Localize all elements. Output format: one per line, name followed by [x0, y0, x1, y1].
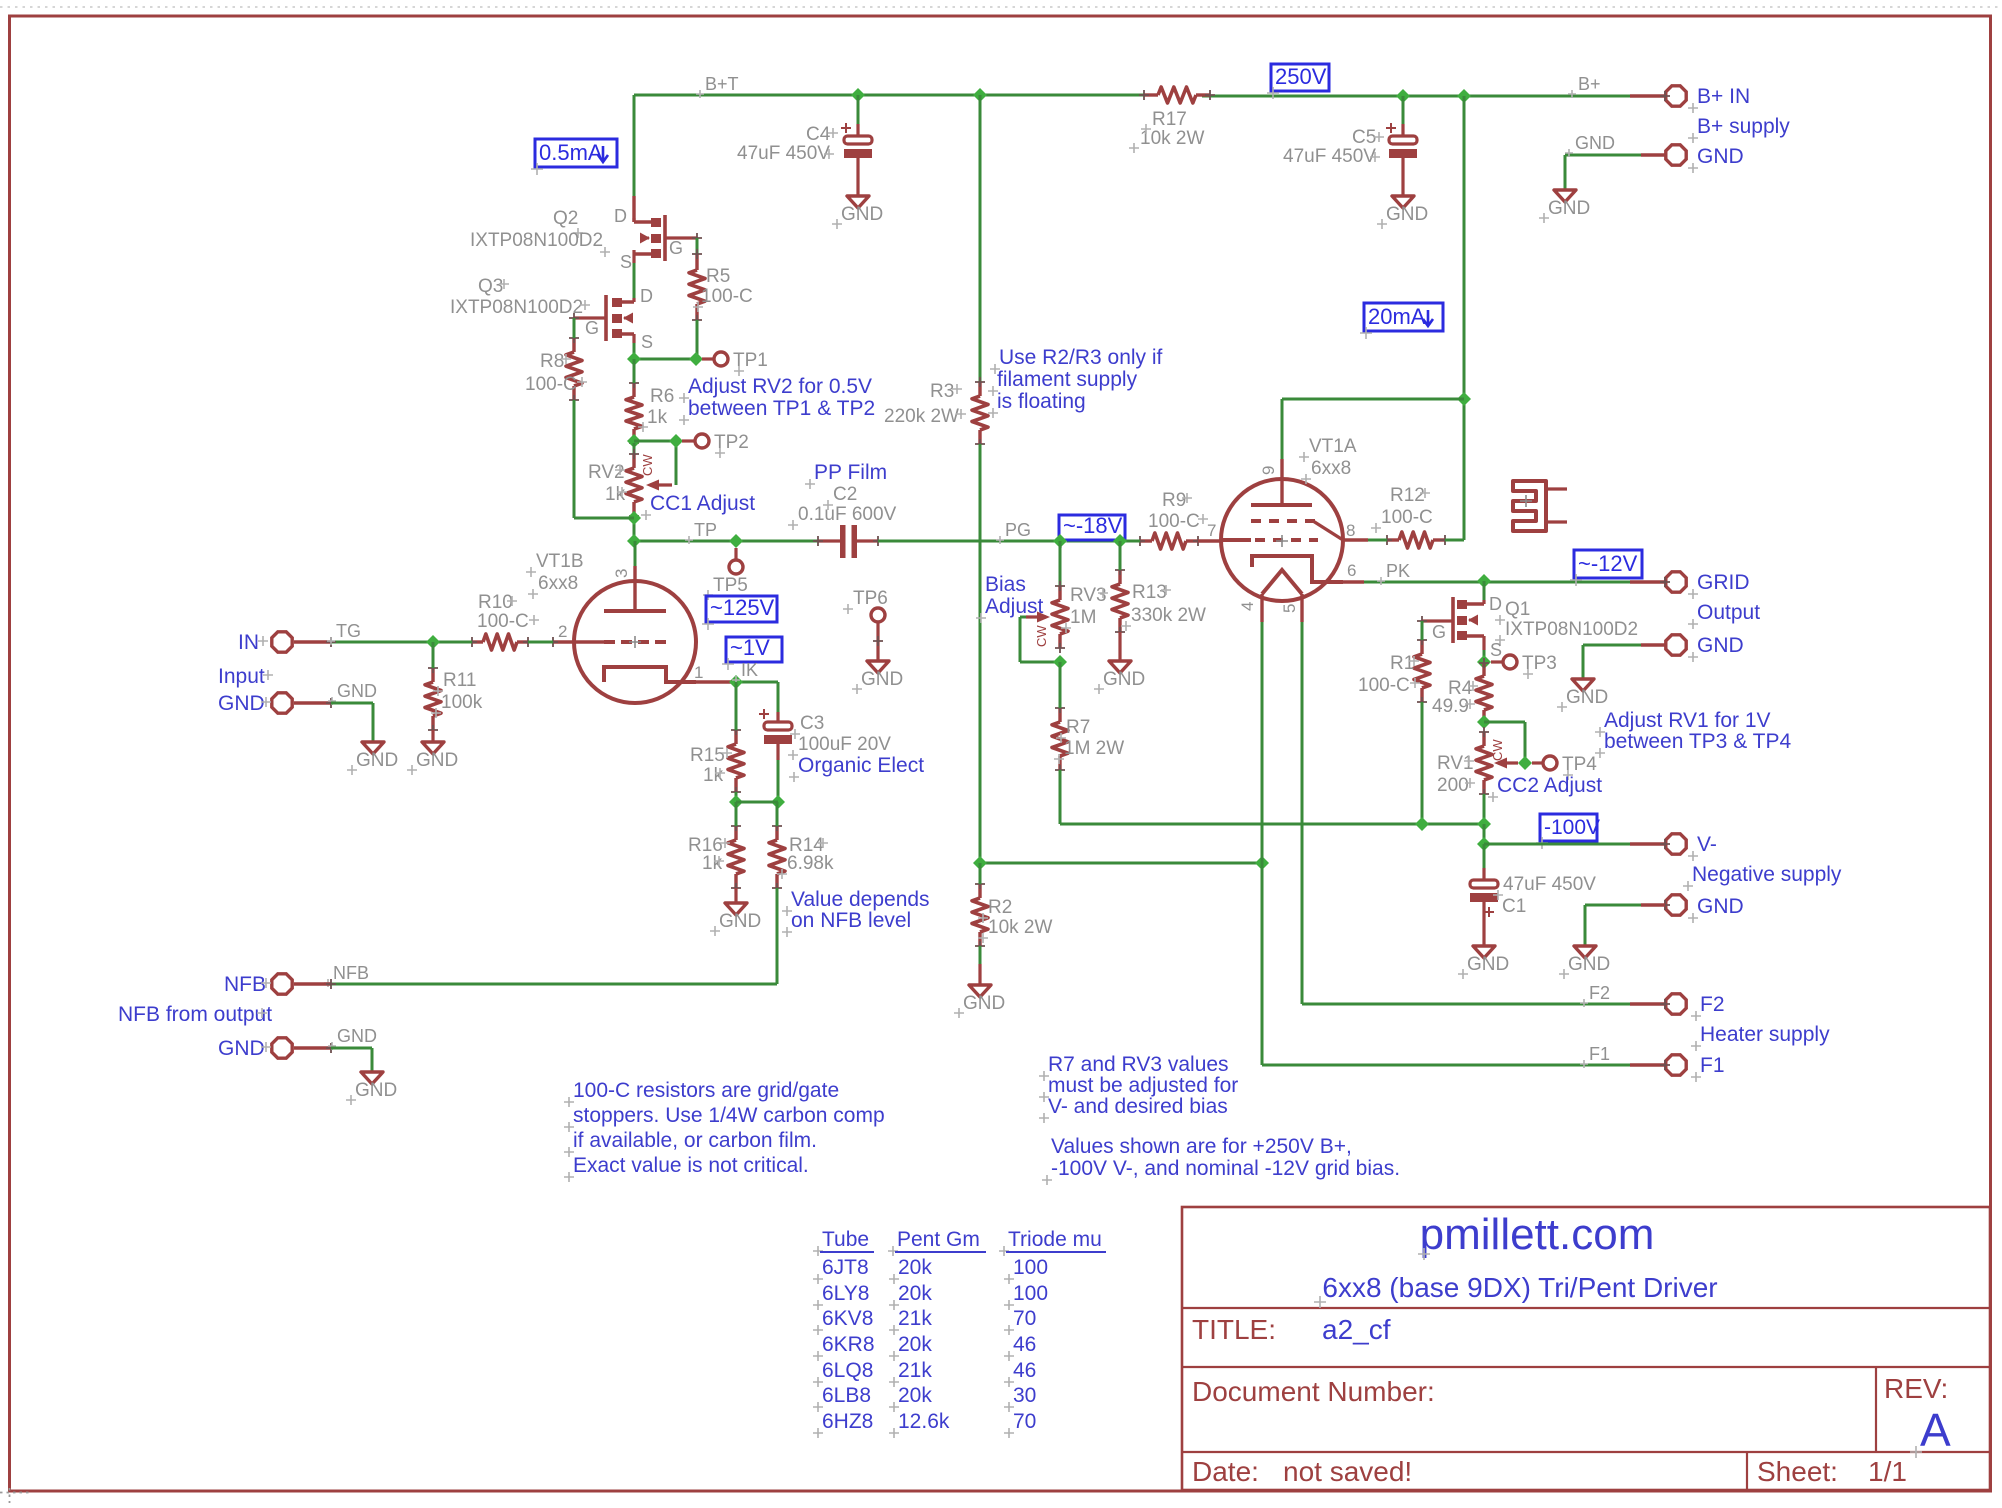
svg-text:GND: GND: [355, 1080, 397, 1101]
svg-text:6LQ8: 6LQ8: [822, 1359, 873, 1382]
resistor R12: [1371, 485, 1450, 548]
svg-text:6LB8: 6LB8: [822, 1384, 871, 1407]
wire RV2 bottom node: [633, 516, 636, 541]
label ~-18V box: [1055, 513, 1125, 548]
svg-text:4: 4: [1238, 602, 1257, 611]
capacitor C1: [1470, 874, 1596, 917]
svg-text:GND: GND: [841, 204, 883, 225]
svg-text:GND: GND: [1575, 133, 1615, 153]
title block TITLE row: [1192, 1314, 1391, 1345]
wire pin4 vertical: [1261, 622, 1264, 1065]
svg-text:1: 1: [694, 663, 703, 682]
svg-text:pmillett.com: pmillett.com: [1420, 1210, 1655, 1259]
test point TP3: [1491, 653, 1557, 679]
title block box: [1182, 1207, 1990, 1490]
wire pin1 node: [736, 682, 778, 712]
svg-text:6HZ8: 6HZ8: [822, 1410, 873, 1433]
wire C4 bottom lead: [856, 158, 859, 196]
svg-text:30: 30: [1013, 1384, 1036, 1407]
test point TP1: [702, 350, 768, 376]
svg-text:Q1: Q1: [1505, 599, 1530, 620]
svg-text:NFB from output: NFB from output: [118, 1003, 272, 1026]
test point TP5: [703, 548, 748, 600]
svg-text:R7 and RV3 values: R7 and RV3 values: [1048, 1053, 1229, 1076]
connector GND output: [1666, 635, 1686, 655]
wire -100V rail: [1060, 823, 1484, 826]
resistor R3: [884, 377, 988, 449]
node junction R15 R16: [729, 795, 743, 809]
wire x634 from B+T down to Q2: [633, 95, 636, 222]
svg-text:8: 8: [1346, 521, 1355, 540]
svg-text:a2_cf: a2_cf: [1322, 1314, 1391, 1345]
label Heater supply: [1691, 1023, 1830, 1051]
ground below TP6: [852, 661, 903, 694]
wire RV3 wiper loop: [1020, 617, 1060, 662]
wire B+T rail: [634, 74, 1144, 98]
ground below nfb GND: [346, 1072, 397, 1105]
svg-text:IXTP08N100D2: IXTP08N100D2: [450, 297, 583, 318]
label F2: [1691, 993, 1725, 1021]
svg-text:CW: CW: [1034, 625, 1049, 647]
svg-text:A: A: [1920, 1404, 1951, 1456]
svg-text:GND: GND: [719, 911, 761, 932]
wire R13 bottom: [1118, 632, 1121, 661]
svg-text:GND: GND: [356, 750, 398, 771]
page boundary dotted corner bottom left: [0, 1488, 30, 1503]
svg-text:B+T: B+T: [705, 74, 739, 94]
label ~125V box: [702, 595, 777, 630]
svg-text:Heater supply: Heater supply: [1700, 1023, 1830, 1046]
wire R15 bottom node: [735, 792, 738, 802]
potentiometer RV1: [1437, 727, 1518, 799]
svg-text:RV2: RV2: [588, 462, 625, 483]
wire R16 bottom: [734, 888, 737, 903]
ground below R16: [710, 903, 761, 936]
wire R9 left: [1120, 540, 1140, 543]
wire R8 bottom to RV2 node: [574, 400, 634, 518]
svg-text:GRID: GRID: [1697, 571, 1750, 594]
svg-text:Q2: Q2: [553, 208, 578, 229]
resistor R6: [626, 378, 674, 448]
potentiometer RV3: [1026, 581, 1108, 653]
svg-text:G: G: [1432, 622, 1446, 642]
wire R5 bottom to TP1 node: [696, 320, 699, 359]
svg-text:REV:: REV:: [1884, 1373, 1948, 1404]
svg-text:V-: V-: [1697, 833, 1717, 856]
svg-text:Value depends: Value depends: [791, 888, 930, 911]
svg-text:Triode mu: Triode mu: [1008, 1228, 1102, 1251]
wire NFB: [324, 963, 777, 987]
svg-text:70: 70: [1013, 1410, 1036, 1433]
svg-text:-100V: -100V: [1544, 816, 1600, 839]
label Use R2 R3 note: [988, 346, 1163, 418]
svg-text:100-C: 100-C: [1358, 675, 1410, 696]
svg-text:1/1: 1/1: [1868, 1456, 1907, 1487]
svg-text:R2: R2: [988, 897, 1012, 918]
wire TP2 link: [634, 441, 676, 485]
svg-text:R3: R3: [930, 381, 954, 402]
test point TP4: [1532, 754, 1597, 780]
label PG: [996, 520, 1031, 544]
svg-text:Bias: Bias: [985, 573, 1026, 596]
svg-text:Adjust: Adjust: [985, 595, 1044, 618]
svg-text:D: D: [614, 206, 627, 226]
svg-text:6xx8: 6xx8: [1311, 458, 1351, 479]
connector F1: [1660, 1055, 1686, 1075]
svg-text:GND: GND: [337, 1026, 377, 1046]
svg-text:G: G: [585, 318, 599, 338]
svg-text:Tube: Tube: [822, 1228, 869, 1251]
svg-text:not saved!: not saved!: [1283, 1456, 1412, 1487]
svg-text:6: 6: [1347, 561, 1356, 580]
svg-text:Use R2/R3 only if: Use R2/R3 only if: [999, 346, 1163, 369]
svg-text:~-18V: ~-18V: [1063, 513, 1123, 538]
wire VT1B plate lead: [634, 541, 637, 609]
title block sheet: [1757, 1456, 1907, 1487]
capacitor C4: [737, 123, 872, 164]
svg-text:GND: GND: [963, 993, 1005, 1014]
svg-text:V- and desired bias: V- and desired bias: [1048, 1095, 1228, 1118]
wire V- to connector: [1484, 843, 1665, 846]
svg-text:C3: C3: [800, 713, 824, 734]
label Input+: [218, 665, 273, 688]
label ~-12V box: [1570, 550, 1642, 586]
svg-text:220k 2W: 220k 2W: [884, 406, 959, 427]
wire C5 bottom lead: [1401, 158, 1404, 196]
svg-text:GND: GND: [1568, 954, 1610, 975]
resistor R13: [1112, 565, 1206, 637]
svg-text:if available, or carbon film.: if available, or carbon film.: [573, 1129, 817, 1152]
svg-text:R7: R7: [1066, 717, 1090, 738]
svg-text:Sheet:: Sheet:: [1757, 1456, 1838, 1487]
label Negative supply: [1683, 863, 1842, 891]
label GND+ nfb: [218, 1037, 271, 1060]
svg-text:0.5mA: 0.5mA: [539, 140, 603, 165]
wire pin8 to R12: [1343, 538, 1387, 541]
ground below GND connector: [1539, 190, 1590, 223]
node junction R3 top: [973, 88, 987, 102]
title block subtitle: [1314, 1272, 1718, 1308]
transistor Q1: [1417, 594, 1638, 660]
wire R3 top: [979, 95, 982, 382]
svg-text:CW: CW: [1490, 739, 1505, 761]
wire TP6 to ground: [873, 622, 883, 661]
potentiometer RV2: [588, 449, 672, 521]
svg-text:100: 100: [1013, 1256, 1048, 1279]
label V-: [1688, 833, 1717, 861]
svg-text:Negative supply: Negative supply: [1692, 863, 1842, 886]
wire R5 top: [696, 238, 699, 256]
wire GND nfb to ground: [331, 1048, 372, 1072]
svg-text:100k: 100k: [441, 692, 483, 713]
svg-text:Adjust RV2 for 0.5V: Adjust RV2 for 0.5V: [688, 375, 872, 398]
svg-text:F1: F1: [1589, 1044, 1610, 1064]
svg-text:C2: C2: [833, 484, 857, 505]
wire Q2 source to Q3 drain: [633, 263, 636, 298]
node junction V- node: [1477, 837, 1491, 851]
wire R6 bottom node: [633, 443, 636, 454]
svg-text:Organic Elect: Organic Elect: [798, 754, 924, 777]
label PP Film: [805, 461, 887, 489]
svg-text:GND: GND: [1103, 669, 1145, 690]
label NFB+: [224, 973, 271, 996]
svg-text:is floating: is floating: [997, 390, 1086, 413]
capacitor C2: [788, 484, 897, 558]
wire S node to TP1: [634, 358, 696, 361]
svg-text:TP6: TP6: [853, 588, 888, 609]
svg-text:10k 2W: 10k 2W: [988, 917, 1052, 938]
resistor R17: [1129, 87, 1215, 153]
svg-text:on NFB level: on NFB level: [791, 909, 911, 932]
label GND output: [1688, 634, 1744, 662]
wire C4 top lead: [857, 95, 860, 136]
svg-text:GND: GND: [1697, 634, 1744, 657]
wire VT1A pin9 branch: [1282, 399, 1464, 459]
label CC1 Adjust: [641, 492, 755, 520]
transistor Q2: [470, 206, 702, 272]
label Adjust RV1 note: [1595, 709, 1791, 758]
wire rail to V- node: [1483, 824, 1486, 844]
svg-text:100-C: 100-C: [525, 374, 577, 395]
node junction Q3 source: [627, 352, 641, 366]
wire Q1 source node: [1483, 650, 1486, 662]
label R7 RV3 note: [1039, 1053, 1238, 1123]
svg-text:Input: Input: [218, 665, 265, 688]
connector GRID: [1660, 572, 1686, 592]
svg-text:~125V: ~125V: [710, 595, 775, 620]
svg-text:6LY8: 6LY8: [822, 1282, 870, 1305]
svg-text:B+ IN: B+ IN: [1697, 85, 1750, 108]
resistor R16: [688, 821, 744, 893]
svg-text:PK: PK: [1386, 561, 1410, 581]
svg-text:R17: R17: [1152, 109, 1187, 130]
ground below output GND: [1557, 679, 1608, 712]
label values shown note: [1042, 1135, 1400, 1185]
wire RV1 bottom: [1483, 794, 1486, 824]
svg-text:R12: R12: [1390, 485, 1425, 506]
svg-text:F2: F2: [1700, 993, 1725, 1016]
wire R16 top: [735, 802, 738, 826]
label Bias Adjust: [976, 573, 1044, 623]
label ~1V box: [722, 635, 782, 670]
node junction RV1 wiper: [1518, 756, 1532, 770]
svg-text:PG: PG: [1005, 520, 1031, 540]
svg-text:S: S: [620, 252, 632, 272]
wire R12 to B+ vertical: [1445, 539, 1464, 542]
label CC2 Adjust: [1488, 774, 1602, 802]
connector F2: [1660, 994, 1686, 1014]
wire R9 to pin7: [1198, 539, 1221, 542]
resistor R7: [1052, 703, 1124, 775]
wire R14 top: [776, 802, 779, 826]
wire heater bias link: [980, 862, 1262, 865]
ground below C5: [1377, 196, 1428, 229]
connector V-: [1660, 834, 1686, 854]
svg-text:R9: R9: [1162, 490, 1186, 511]
resistor R8: [525, 333, 587, 405]
connector GND input: [272, 681, 377, 713]
resistor R4: [1432, 658, 1492, 728]
label IN+: [238, 631, 268, 654]
label Organic Elect: [789, 754, 924, 782]
svg-text:R5: R5: [706, 266, 730, 287]
wire GND output to ground: [1583, 645, 1665, 679]
wire R8 top from Q3 gate: [573, 318, 576, 338]
wire node to C2: [634, 520, 818, 544]
label GRID: [1688, 571, 1750, 599]
svg-text:TP5: TP5: [713, 575, 748, 596]
svg-text:PP Film: PP Film: [814, 461, 887, 484]
ground below input GND: [347, 742, 398, 775]
svg-text:TP: TP: [694, 520, 717, 540]
svg-text:VT1A: VT1A: [1309, 436, 1357, 457]
svg-text:IK: IK: [741, 660, 758, 680]
node junction PG RV3: [1053, 534, 1067, 548]
wire R10 to tube pin2: [528, 641, 553, 644]
svg-text:GND: GND: [218, 692, 265, 715]
svg-text:12.6k: 12.6k: [898, 1410, 950, 1433]
wire C3 bottom: [776, 744, 779, 802]
svg-text:330k 2W: 330k 2W: [1131, 605, 1206, 626]
svg-text:S: S: [1490, 640, 1502, 660]
svg-text:100-C: 100-C: [701, 286, 753, 307]
wire RV3 to R7: [1059, 662, 1062, 708]
svg-text:6xx8 (base 9DX) Tri/Pent Drive: 6xx8 (base 9DX) Tri/Pent Driver: [1322, 1272, 1717, 1303]
ground below vminus GND: [1559, 946, 1610, 979]
label 100-C resistors note: [564, 1079, 885, 1182]
wire B+ vertical: [1463, 96, 1466, 540]
svg-text:IXTP08N100D2: IXTP08N100D2: [1505, 619, 1638, 640]
ground below C4: [832, 196, 883, 229]
svg-text:6KV8: 6KV8: [822, 1307, 873, 1330]
label NFB from output: [118, 1003, 272, 1026]
svg-text:CC2 Adjust: CC2 Adjust: [1497, 774, 1602, 797]
svg-text:TITLE:: TITLE:: [1192, 1314, 1276, 1345]
node junction C4 top: [851, 88, 865, 102]
node junction Q1 source: [1477, 655, 1491, 669]
svg-text:GND: GND: [861, 669, 903, 690]
wire pin6 to GRID: [1343, 561, 1630, 585]
svg-text:6xx8: 6xx8: [538, 573, 578, 594]
wire R15-R14 link: [736, 801, 778, 804]
svg-text:100-C: 100-C: [1148, 511, 1200, 532]
connector GND top right: [1565, 133, 1686, 165]
svg-text:GND: GND: [416, 750, 458, 771]
test point TP6: [843, 588, 888, 622]
connector GND vminus: [1660, 895, 1686, 915]
label B+ supply: [1688, 115, 1790, 143]
wire C2 to PG: [878, 540, 1138, 543]
svg-text:70: 70: [1013, 1307, 1036, 1330]
svg-text:NFB: NFB: [333, 963, 369, 983]
node junction R11 top: [426, 635, 440, 649]
svg-text:GND: GND: [337, 681, 377, 701]
svg-text:TG: TG: [336, 621, 361, 641]
svg-text:47uF 450V: 47uF 450V: [1283, 146, 1376, 167]
svg-text:47uF 450V: 47uF 450V: [737, 143, 830, 164]
wire RV1 wiper loop: [1484, 722, 1525, 763]
svg-text:20k: 20k: [898, 1282, 932, 1305]
node junction PG R13: [1113, 534, 1127, 548]
svg-text:must be adjusted for: must be adjusted for: [1048, 1074, 1238, 1097]
wire R13 top: [1119, 541, 1122, 570]
wire VT1B pin2 lead: [548, 637, 574, 647]
wire R1 top: [1421, 621, 1424, 640]
wire R3 bottom to heater node: [979, 444, 982, 863]
svg-text:9: 9: [1259, 466, 1278, 475]
svg-text:100-C: 100-C: [477, 611, 529, 632]
wire C5 top lead: [1402, 96, 1405, 136]
svg-text:D: D: [640, 286, 653, 306]
node junction R6 bottom: [627, 434, 641, 448]
wire F2 stub: [1630, 1002, 1665, 1005]
transistor Q3: [450, 276, 653, 352]
title block text pmillett.com: [1418, 1210, 1654, 1260]
node junction TP1 stub: [689, 352, 703, 366]
wire Q3 source to node: [633, 343, 636, 359]
wire R7 bottom to rail: [1059, 770, 1062, 824]
resistor R1: [1358, 635, 1430, 707]
svg-text:250V: 250V: [1275, 64, 1327, 89]
label GND vminus: [1688, 895, 1744, 923]
node junction B+ vertical: [1457, 89, 1471, 103]
wire GND vminus to ground: [1585, 905, 1665, 946]
label 20mA box: [1360, 303, 1443, 339]
node junction R2 top: [973, 856, 987, 870]
tube VT1A: [1207, 436, 1357, 622]
node junction R1 rail: [1415, 817, 1429, 831]
capacitor C5: [1283, 123, 1417, 167]
wire R11 bottom: [431, 730, 434, 742]
svg-text:F2: F2: [1589, 983, 1610, 1003]
svg-text:20k: 20k: [898, 1256, 932, 1279]
svg-text:R1: R1: [1390, 653, 1414, 674]
label 250V box: [1267, 64, 1329, 99]
svg-text:CW: CW: [640, 454, 655, 476]
svg-text:GND: GND: [1697, 895, 1744, 918]
svg-text:6JT8: 6JT8: [822, 1256, 869, 1279]
wire GND connector top: [1565, 155, 1665, 190]
resistor R15: [690, 725, 744, 797]
label Output: [1688, 601, 1760, 629]
ground below R2: [954, 985, 1005, 1018]
svg-text:D: D: [1489, 594, 1502, 614]
svg-text:100: 100: [1013, 1282, 1048, 1305]
wire C1 bottom lead: [1482, 902, 1485, 946]
ground below R13: [1094, 661, 1145, 694]
wire GND input to ground: [331, 703, 373, 742]
wire B+ stub to connector: [1630, 94, 1665, 97]
node junction TP2: [669, 434, 683, 448]
svg-text:6KR8: 6KR8: [822, 1333, 875, 1356]
wire F1 stub: [1630, 1063, 1665, 1066]
resistor R14: [769, 821, 834, 893]
wire R2 bottom: [979, 946, 982, 985]
svg-text:1k: 1k: [647, 407, 668, 428]
svg-text:S: S: [641, 332, 653, 352]
svg-text:0.1uF 600V: 0.1uF 600V: [798, 504, 897, 525]
svg-text:Pent Gm: Pent Gm: [897, 1228, 980, 1251]
svg-text:B+: B+: [1578, 74, 1601, 94]
node junction VT1A plate branch: [1457, 392, 1471, 406]
wire R15 top: [735, 682, 738, 730]
svg-text:20k: 20k: [898, 1333, 932, 1356]
svg-text:Exact value is not critical.: Exact value is not critical.: [573, 1154, 809, 1177]
svg-text:NFB: NFB: [224, 973, 266, 996]
capacitor C3: [759, 709, 891, 760]
wire R6 top: [633, 359, 636, 383]
svg-text:R8: R8: [540, 351, 564, 372]
